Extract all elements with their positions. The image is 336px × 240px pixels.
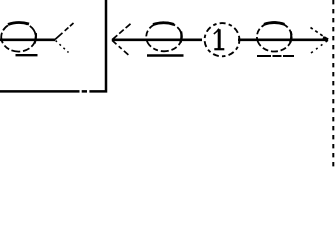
wire W2b (main line, right part from node 1) [238, 38, 328, 41]
wire W1 (left line through source S1) [0, 38, 55, 41]
source S1 circle [1, 22, 36, 51]
arrowhead A3 (open, pointing right at end of main wire) [311, 28, 329, 54]
source S3 bottom bar [257, 55, 294, 57]
wire W2a (main line, left part up to node 1) [112, 38, 202, 41]
node 1 label "1" [214, 29, 225, 50]
reference plane dashed line (right edge) [332, 0, 334, 171]
arrowhead A1 (open, pointing left at end of W1) [55, 23, 74, 53]
source S3 circle [257, 22, 292, 51]
arrowhead A2 (open, pointing left at start of main wire) [112, 24, 131, 55]
source S2 bottom bar [147, 54, 184, 57]
block boundary box (top-left enclosure) [0, 0, 106, 91]
source S2 circle [146, 22, 182, 51]
source S1 bottom bar [16, 54, 38, 56]
node 1 circle [205, 23, 240, 56]
scan gaps in box bottom edge [80, 90, 82, 93]
